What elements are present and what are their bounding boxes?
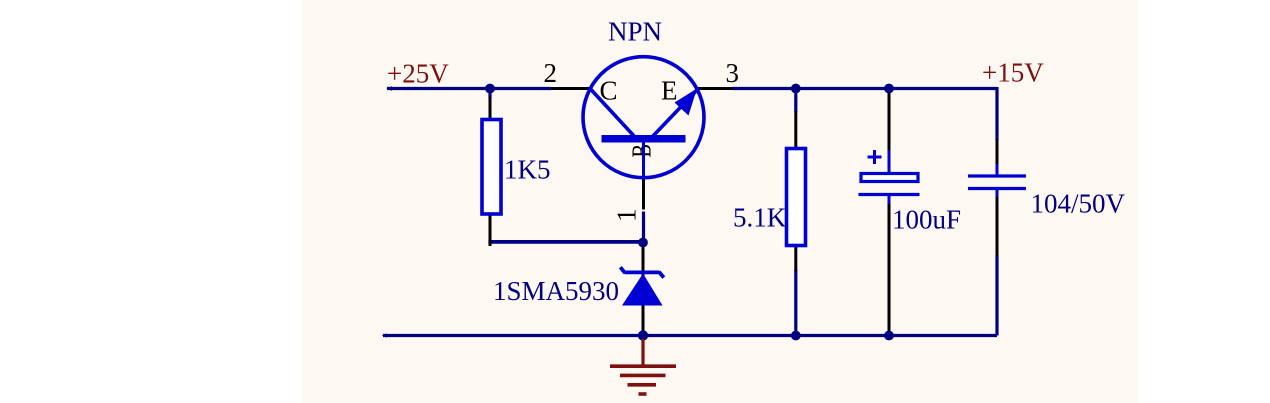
svg-text:1K5: 1K5 <box>504 155 551 185</box>
svg-text:2: 2 <box>544 58 558 88</box>
svg-text:1: 1 <box>612 209 642 223</box>
svg-text:+25V: +25V <box>387 59 449 89</box>
svg-text:1SMA5930: 1SMA5930 <box>493 276 619 306</box>
svg-text:100uF: 100uF <box>892 205 961 235</box>
svg-text:5.1K: 5.1K <box>733 203 787 233</box>
svg-text:NPN: NPN <box>608 17 662 47</box>
svg-text:3: 3 <box>726 58 740 88</box>
svg-text:E: E <box>661 76 678 106</box>
svg-text:+15V: +15V <box>982 58 1044 88</box>
svg-text:B: B <box>627 144 657 158</box>
svg-text:C: C <box>600 76 618 106</box>
svg-text:104/50V: 104/50V <box>1031 189 1126 219</box>
